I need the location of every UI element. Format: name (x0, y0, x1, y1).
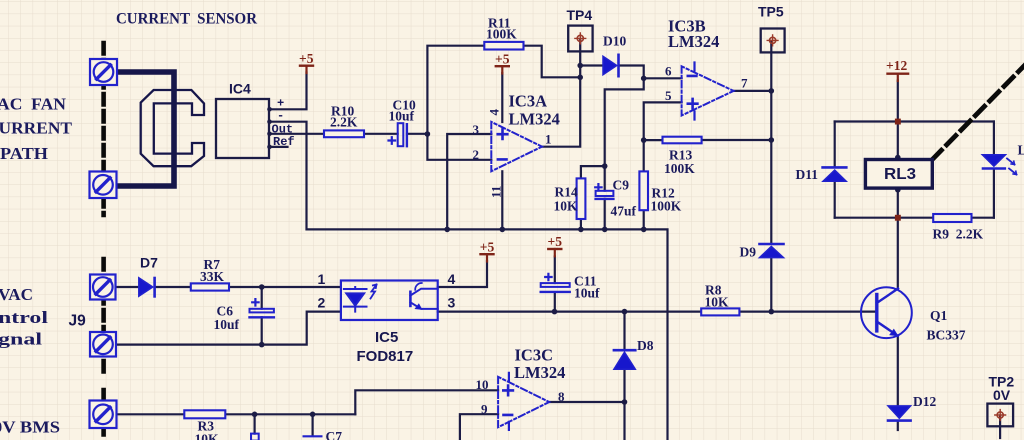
wire bottom rail to R9 (835, 217, 934, 219)
svg-text:LM324: LM324 (514, 363, 565, 382)
terminal screw J9 pin1 (90, 275, 116, 300)
svg-text:PATH: PATH (0, 144, 48, 163)
svg-text:9: 9 (481, 401, 488, 416)
svg-text:D10: D10 (603, 34, 626, 49)
wire: sensor primary thick loop (116, 72, 174, 186)
dashed mains line J9 (101, 259, 106, 377)
svg-text:IC5: IC5 (375, 329, 398, 346)
wire stub to C7 (312, 414, 314, 435)
svg-text:+5: +5 (495, 51, 510, 66)
wire IC3B pin5 to divider node (644, 102, 682, 140)
wire IC3A pin4 to +5 (501, 73, 503, 122)
capacitor C6 (250, 299, 274, 317)
wire IC4 + pin to +5 (269, 73, 307, 110)
wire R3 right rail (225, 413, 355, 415)
relay RL3 box (865, 160, 932, 189)
wire LED bottom (993, 169, 995, 218)
svg-text:Q1: Q1 (930, 308, 948, 323)
svg-text:Ref: Ref (273, 135, 295, 149)
svg-text:10: 10 (476, 377, 489, 392)
svg-text:IC3C: IC3C (515, 346, 554, 365)
svg-text:IC4: IC4 (229, 81, 251, 97)
svg-text:LM324: LM324 (668, 32, 719, 51)
resistor R7 (191, 283, 229, 290)
svg-text:6: 6 (665, 64, 672, 79)
wire relay coil top (897, 122, 899, 160)
wire stub to C7a (254, 414, 256, 433)
wire D8 bottom to IC3C pin8 node (623, 369, 625, 440)
resistor R8 (701, 308, 739, 315)
wire D8 vertical top (623, 312, 625, 350)
resistor R10 (324, 130, 364, 137)
wire R13 right (702, 139, 772, 141)
svg-text:+5: +5 (548, 234, 563, 249)
svg-text:10uf: 10uf (574, 286, 600, 301)
wire TP2 stub (999, 416, 1001, 439)
svg-text:D12: D12 (913, 394, 936, 409)
power +5 at IC3A pin4 (496, 66, 509, 73)
wire D12 stub (897, 421, 899, 430)
diode D9 (760, 244, 784, 258)
resistor R14 (577, 178, 586, 219)
svg-text:J9: J9 (69, 312, 87, 329)
wire IC3A pin11 to rail (501, 171, 503, 229)
svg-text:gnal: gnal (0, 330, 42, 349)
wire TP4 down through output node to IC3A pin1 (542, 40, 580, 147)
svg-text:2: 2 (318, 295, 326, 311)
IC5 light arrow (371, 285, 377, 299)
wire IC5 pin4 to +5 (438, 261, 487, 287)
wire IC3C pin8 (549, 401, 624, 403)
diode D11 (823, 167, 847, 181)
svg-text:LM324: LM324 (509, 110, 560, 129)
capacitor C7 plate (304, 435, 322, 437)
svg-text:0V: 0V (993, 387, 1011, 403)
IC5 internal LED (344, 287, 367, 312)
svg-text:47uf: 47uf (611, 204, 637, 219)
capacitor C7a stub square (251, 434, 259, 440)
resistor R3 (184, 410, 225, 418)
svg-text:RL3: RL3 (884, 166, 916, 183)
wire IC5 pin3 line to R8 (438, 311, 702, 313)
svg-text:10K: 10K (195, 432, 220, 440)
wire D9 anode down (770, 258, 772, 312)
wire Q1 emitter to D12 (897, 336, 899, 406)
wire D10 cathode to IC3B pin6 (620, 66, 682, 79)
wire D11 bottom (834, 181, 836, 217)
svg-text:-: - (277, 109, 284, 123)
IC4 body (216, 99, 269, 158)
svg-text:100K: 100K (486, 27, 517, 42)
wire R12 bottom to rail (643, 210, 645, 229)
svg-text:D8: D8 (637, 338, 654, 353)
svg-text:2: 2 (473, 147, 480, 162)
test point TP4 (568, 26, 592, 52)
svg-text:33K: 33K (200, 269, 225, 284)
wire R14 bottom to rail (580, 219, 582, 229)
svg-text:C9: C9 (613, 178, 630, 193)
svg-text:C7: C7 (326, 429, 343, 440)
wire D10 anode (580, 64, 603, 66)
svg-text:ntrol: ntrol (0, 308, 48, 327)
transistor Q1 (861, 287, 912, 338)
svg-text:3: 3 (448, 295, 456, 311)
svg-text:7: 7 (741, 76, 748, 91)
IC5 body (341, 281, 438, 321)
capacitor C11 (541, 274, 570, 292)
op-amp IC3A (491, 122, 542, 171)
test point TP2 (987, 404, 1013, 427)
LED L3 (982, 155, 1016, 175)
resistor R9 (933, 214, 971, 222)
svg-text:TP5: TP5 (758, 4, 784, 20)
svg-text:11: 11 (489, 186, 504, 198)
test point TP5 (761, 29, 785, 53)
svg-text:100K: 100K (651, 198, 682, 213)
diode D12 (888, 406, 911, 421)
svg-text:+5: +5 (299, 51, 314, 66)
wire node A down to IC3A pin2 (427, 134, 491, 160)
wire R14 top (581, 166, 605, 178)
capacitor C10 (389, 123, 407, 146)
svg-text:10K: 10K (705, 295, 730, 310)
wire rail up to IC3C pin10 (355, 390, 498, 414)
wire J9 pin2 rail to IC5 pin2 (116, 312, 341, 345)
svg-text:100K: 100K (664, 161, 695, 176)
wire R9 to right branch (972, 217, 994, 219)
wire +12 to relay top rail (897, 81, 899, 122)
wire D11 top (834, 122, 836, 166)
wire relay contact top rail (835, 120, 994, 122)
svg-text:5: 5 (665, 88, 672, 103)
wire IC3B pin7 to TP5 vertical (734, 90, 772, 92)
wire C6 leads (261, 287, 263, 345)
svg-text:10uf: 10uf (214, 317, 240, 332)
wire TP5 down to D9 (770, 41, 772, 243)
wire J9 pin1 to D7 (116, 286, 139, 288)
power +5 at IC5 pin4 (481, 254, 494, 261)
svg-text:1: 1 (545, 132, 552, 147)
wire R11 right to output node (524, 46, 581, 78)
svg-text:8: 8 (558, 389, 565, 404)
power +5 at C11 (548, 249, 561, 256)
wire R8 to Q1 base (739, 311, 876, 313)
svg-text:FOD817: FOD817 (357, 348, 414, 365)
wire R12 top (643, 140, 645, 171)
svg-text:CURRENT: CURRENT (0, 119, 73, 138)
IC4 pin dots (267, 107, 272, 149)
wire C10 to node A (407, 133, 427, 135)
wire LED top (993, 122, 995, 155)
terminal screw top-left 1 (90, 59, 118, 428)
wire C9 bottom to rail (604, 199, 606, 230)
svg-text:R14: R14 (555, 184, 578, 199)
svg-text:4: 4 (448, 271, 456, 287)
svg-text:+5: +5 (480, 239, 495, 254)
svg-text:TP4: TP4 (567, 7, 593, 23)
current transformer core (141, 90, 204, 166)
svg-text:R9 2.2K: R9 2.2K (933, 227, 984, 242)
terminal screw top-left 2 (90, 172, 117, 199)
resistor R13 (663, 137, 702, 144)
svg-text:D9: D9 (740, 244, 757, 259)
terminal screw J9 pin2 (90, 332, 116, 357)
terminal screw 0V BMS (90, 401, 117, 429)
svg-text:10K: 10K (554, 198, 579, 213)
dashed mains line top (101, 43, 106, 215)
svg-text:0V BMS: 0V BMS (0, 418, 60, 437)
svg-text:IC3A: IC3A (509, 92, 548, 111)
power +5 at IC4 (300, 66, 313, 73)
wire C11 down to pin3 line (554, 257, 556, 284)
resistor R12 (639, 171, 648, 210)
svg-text:10uf: 10uf (389, 108, 415, 123)
svg-text:2.2K: 2.2K (330, 115, 358, 130)
wire pin6 node down to C9/R14 (605, 78, 644, 190)
net marker square bottom (895, 215, 901, 221)
wire R7 to IC5 pin1 (229, 286, 341, 288)
svg-text:BC337: BC337 (927, 327, 966, 342)
svg-text:L3: L3 (1018, 143, 1024, 158)
op-amp IC3B (682, 63, 734, 120)
wire IC4 - pin down to reference rail (269, 122, 668, 440)
wire R10 to C10 (364, 133, 398, 135)
svg-text:D11: D11 (796, 167, 819, 182)
wire D7 to R7 (155, 286, 191, 288)
power +12 (888, 74, 909, 81)
IC5 phototransistor (410, 283, 437, 309)
diode D8 (614, 350, 635, 369)
wire IC3A pin3 from rail (447, 134, 491, 229)
wire R11 feedback left (427, 46, 484, 134)
wire relay coil bottom to Q1 collector (897, 188, 899, 288)
wire IC4 Out pin to R10 (269, 133, 324, 135)
svg-text:CURRENT SENSOR: CURRENT SENSOR (116, 11, 257, 28)
svg-text:1: 1 (318, 271, 326, 287)
diode D10 (603, 55, 619, 76)
op-amp IC3C (498, 373, 549, 430)
wire IC3C pin9 down (460, 414, 498, 440)
wire R13 left (644, 139, 663, 141)
dashed mains line BMS (101, 390, 106, 440)
svg-text:+12: +12 (886, 58, 907, 73)
svg-text:4: 4 (487, 109, 502, 116)
svg-text:D7: D7 (140, 255, 158, 271)
diode D7 (139, 278, 155, 297)
capacitor C9 (595, 184, 613, 199)
wire IC4 Ref stub (269, 146, 288, 148)
net marker square top (895, 119, 901, 125)
svg-text:VAC: VAC (0, 285, 33, 304)
relay actuator dashed link (932, 58, 1024, 160)
svg-text:3: 3 (473, 122, 480, 137)
svg-text:AC FAN: AC FAN (0, 94, 67, 113)
resistor R11 (484, 42, 523, 50)
wire 0V BMS terminal to R3 (116, 413, 184, 415)
